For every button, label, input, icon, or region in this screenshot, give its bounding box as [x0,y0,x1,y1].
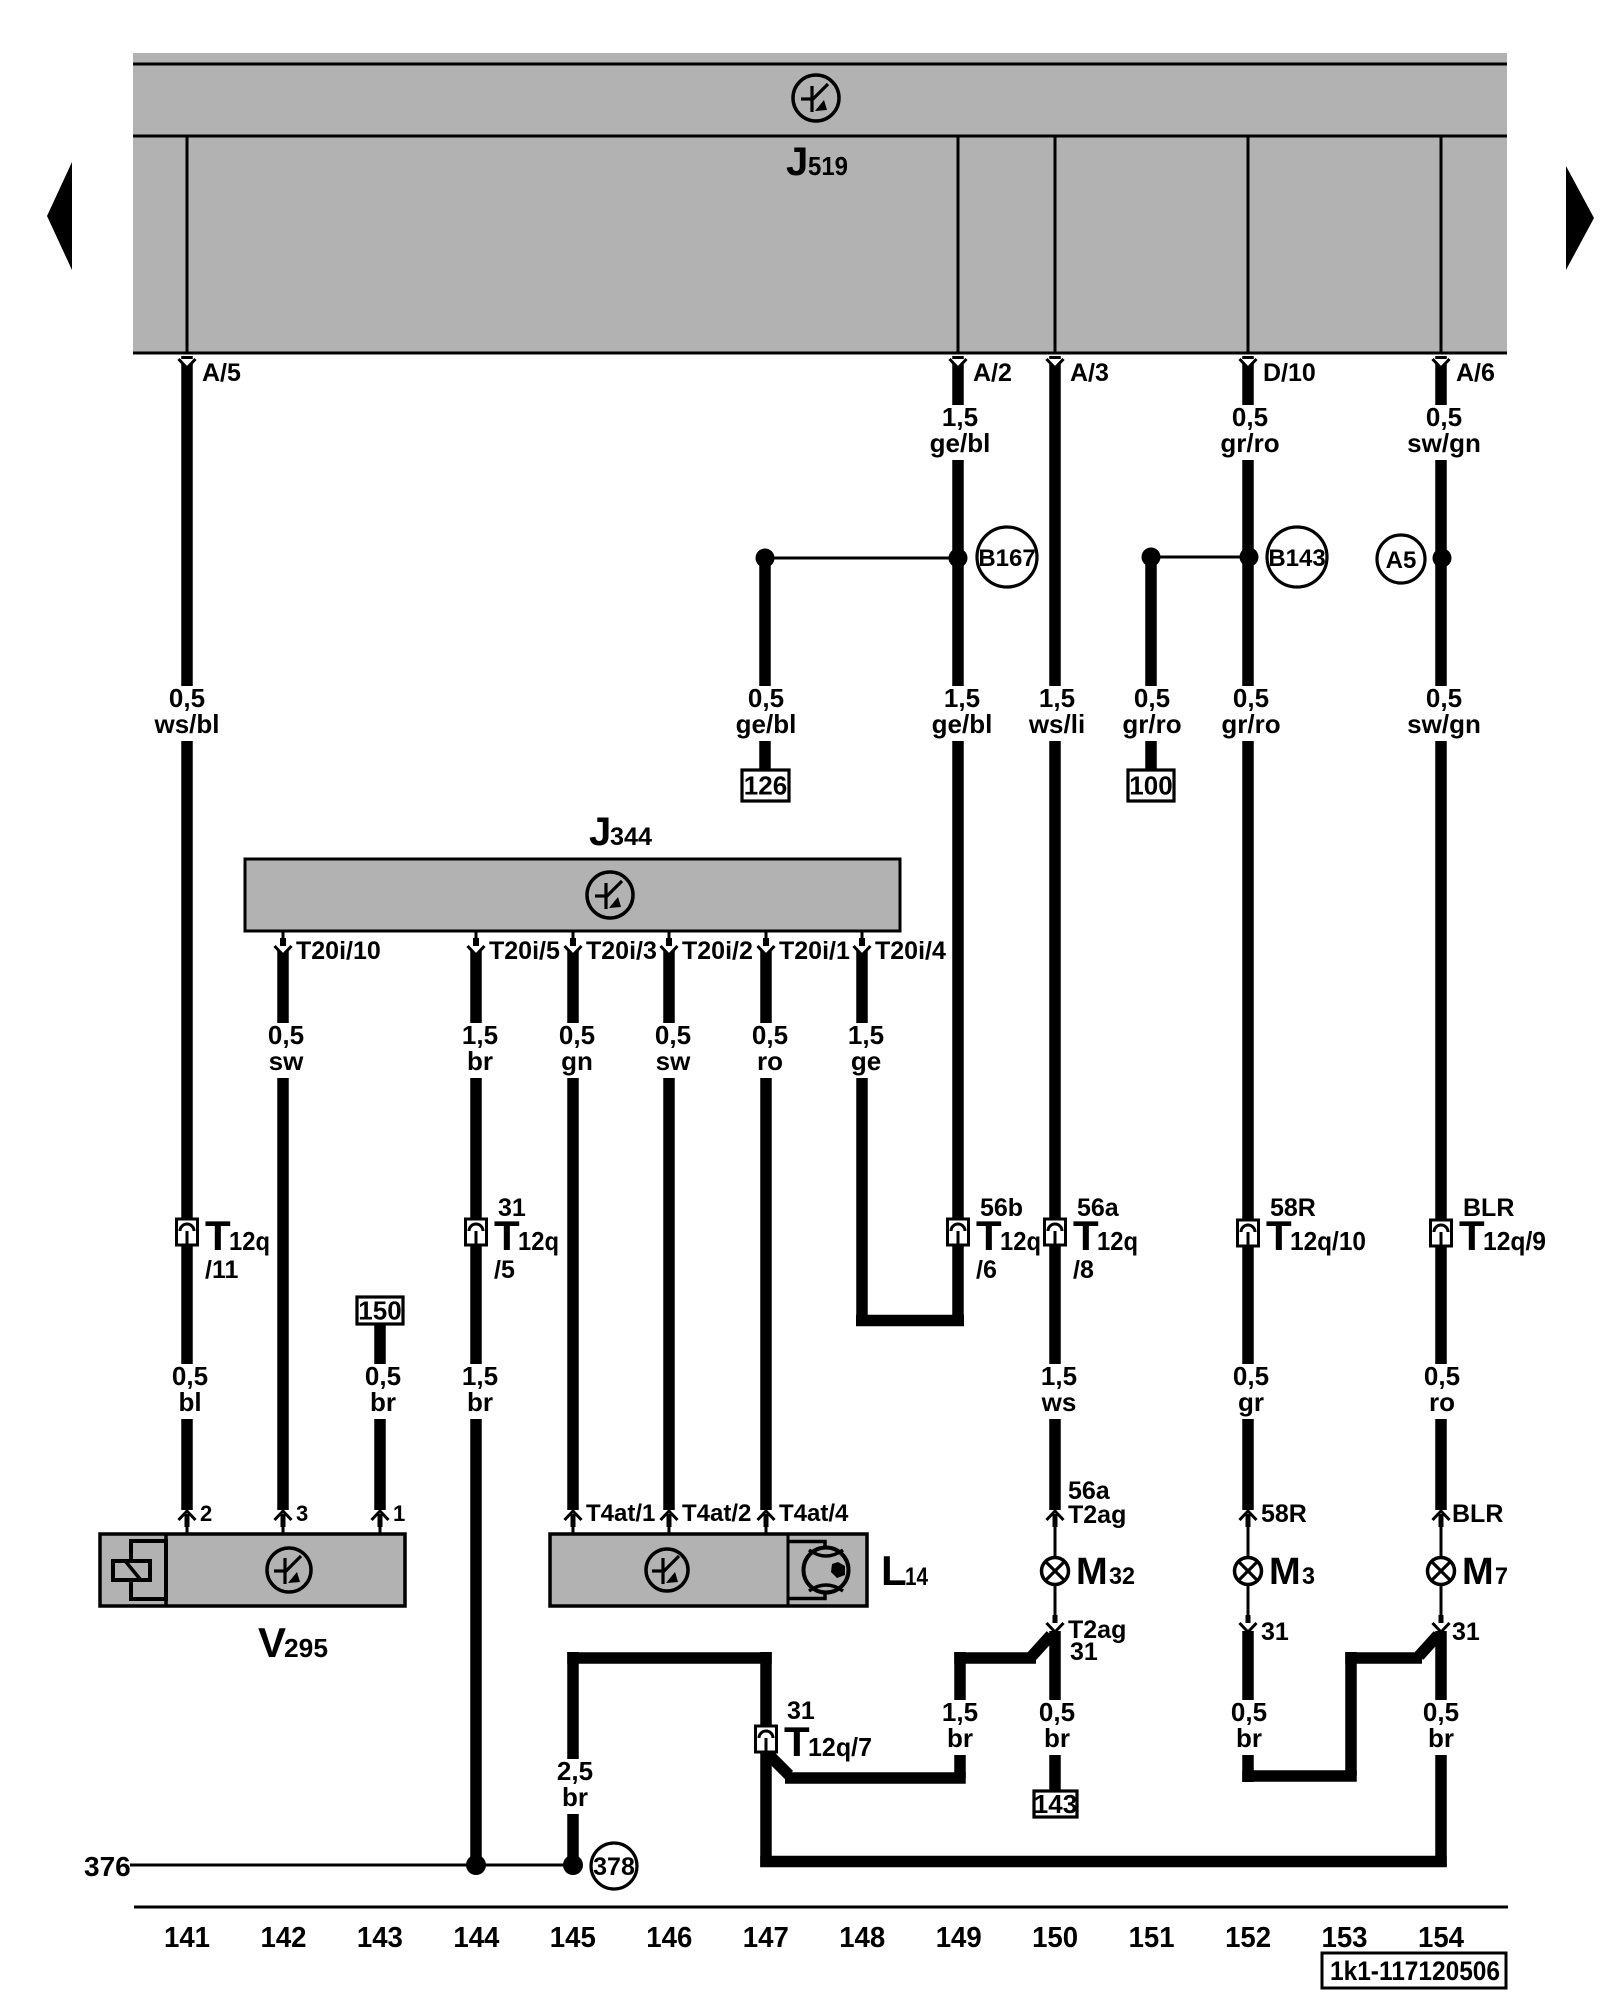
svg-text:J: J [589,810,611,854]
svg-text:sw: sw [269,1046,304,1076]
svg-text:142: 142 [261,1922,307,1954]
J344 pin T20i/2 [668,932,671,945]
wire below T12q/7 down to ground rail [760,1752,772,1867]
svg-text:M: M [1269,1551,1301,1593]
svg-text:12q: 12q [518,1226,559,1256]
svg-text:ro: ro [1429,1387,1455,1417]
J519 pin A/6 arrow [1433,359,1450,368]
wire 0,5 br M32 to terminal 143 [1049,1631,1061,1791]
J519 pin D/10 arrow [1240,359,1257,368]
svg-text:141: 141 [164,1922,210,1954]
svg-text:T: T [784,1718,810,1765]
right page arrow [1566,166,1594,270]
label 0,5 sw/gn [1402,405,1486,460]
wire 0,5 br M3 ground path [1242,1631,1254,1782]
svg-text:3: 3 [296,1501,308,1526]
connector T12q/8 [1045,1219,1066,1245]
svg-text:145: 145 [550,1922,596,1954]
J344 internal symbol [587,872,633,918]
J344 pin T20i/4 [861,932,864,945]
track rail line [134,1906,1508,1909]
junction dot stub 126 [756,549,775,568]
svg-text:J: J [786,140,808,184]
label 1,5 ge [840,1023,893,1078]
L14 internal symbol [646,1549,688,1591]
svg-text:154: 154 [1418,1922,1464,1954]
svg-text:sw/gn: sw/gn [1407,428,1481,458]
J519 internal symbol (K in circle) [793,75,839,121]
J519 pin A/2 arrow [950,359,967,368]
J519 bottom border line [133,352,1507,355]
connector T12q/7 [756,1726,777,1752]
svg-text:A/6: A/6 [1456,359,1495,387]
svg-text:378: 378 [593,1853,635,1881]
svg-text:12q/9: 12q/9 [1483,1226,1546,1256]
svg-text:gn: gn [561,1046,593,1076]
svg-text:T: T [205,1212,231,1259]
svg-text:ge/bl: ge/bl [930,428,991,458]
label 0,5 gr/ro [1110,686,1194,741]
label 0,5 br [357,1364,410,1419]
label 1,5 br [454,1364,507,1419]
svg-text:143: 143 [357,1922,403,1954]
svg-text:2: 2 [200,1501,212,1526]
junction dot on gr/ro wire [1240,548,1259,567]
svg-text:A/3: A/3 [1070,359,1109,387]
wire 1,5 br J344 T20i/5 down to ground junction [470,950,482,1862]
svg-text:32: 32 [1109,1563,1135,1590]
terminal box 143 [1034,1791,1077,1817]
wire 0,5 sw J344 T20i/2 to L14 T4at/2 [663,950,675,1510]
svg-text:T20i/3: T20i/3 [586,937,657,965]
svg-text:br: br [947,1723,973,1753]
label 0,5 gr/ro [1208,405,1292,460]
svg-text:ge/bl: ge/bl [736,709,797,739]
svg-text:/8: /8 [1073,1256,1094,1284]
svg-text:12q: 12q [1097,1226,1138,1256]
connector T12q/10 [1238,1220,1259,1246]
svg-text:14: 14 [905,1563,928,1591]
lamp M3 [1240,1511,1257,1520]
svg-text:12q: 12q [1000,1226,1041,1256]
svg-text:144: 144 [453,1922,499,1954]
svg-text:D/10: D/10 [1263,359,1316,387]
wire 0,5 ro J344 T20i/1 to L14 T4at/4 [760,950,772,1510]
svg-text:M: M [1076,1551,1108,1593]
V295 compartment divider [164,1534,168,1606]
svg-text:gr/ro: gr/ro [1122,709,1181,739]
junction dot on sw/gn wire [1433,549,1452,568]
label 1,5 ge/bl [918,405,1002,460]
J519 inner separator line [133,135,1507,138]
svg-text:T4at/1: T4at/1 [586,1500,655,1527]
svg-text:T4at/4: T4at/4 [779,1500,849,1527]
link wire to B167 [765,557,958,560]
svg-text:/6: /6 [976,1256,997,1284]
svg-text:B167: B167 [978,545,1035,572]
svg-text:BLR: BLR [1452,1500,1503,1528]
svg-text:12q: 12q [229,1226,270,1256]
L14 terminal T4at/2 [661,1511,678,1520]
svg-text:B143: B143 [1268,545,1325,572]
wire 0,5 gr/ro from J519 D/10 to M3 [1242,356,1254,1510]
V295 plug symbol small rect with slash [113,1561,150,1580]
svg-text:152: 152 [1225,1922,1271,1954]
J519 pin A/5 lead [186,137,189,352]
svg-text:L: L [881,1547,907,1594]
J519 pin A/3 arrow [1047,359,1064,368]
svg-text:ge: ge [851,1046,881,1076]
label 0,5 br [1223,1700,1276,1755]
terminal box 126 [742,770,789,801]
wire 0,5 br M7 down to ground rail [1435,1631,1447,1867]
label 1,5 br [454,1023,507,1078]
junction dot 2,5 br wire [563,1855,583,1875]
junction dot on ge/bl wire [949,549,968,568]
svg-text:149: 149 [936,1922,982,1954]
label 0,5 sw [647,1023,700,1078]
L14 lamp compartment divider [787,1534,790,1606]
diagram code box 1k1-117120506 [1322,1953,1506,1988]
wire 0,5 br from terminal 150 to V295/1 [374,1322,386,1510]
J519 pin A/2 lead [957,137,960,352]
diagonal to M32 ground terminal [1032,1635,1051,1656]
svg-text:148: 148 [839,1922,885,1954]
V295 internal symbol [267,1548,311,1592]
terminal box 100 [1128,770,1174,801]
svg-text:1k1-117120506: 1k1-117120506 [1330,1956,1500,1986]
svg-text:31: 31 [1261,1618,1289,1646]
wire 0,5 sw J344 T20i/10 to V295/3 [277,950,289,1510]
control unit J344 box [245,859,900,931]
svg-text:T2ag: T2ag [1068,1501,1126,1529]
wire 1,5 ws/li from J519 A/3 to M32 [1049,356,1061,1510]
svg-text:br: br [562,1782,588,1812]
svg-text:/5: /5 [494,1256,515,1284]
svg-text:sw: sw [656,1046,691,1076]
svg-text:br: br [1044,1723,1070,1753]
diagonal branch from T12q/7 [769,1755,789,1775]
svg-text:7: 7 [1495,1563,1508,1590]
L14 lamp socket bracket [788,1542,825,1551]
label 2,5 br [549,1759,602,1814]
connector T12q/9 [1431,1220,1452,1246]
svg-text:12q/10: 12q/10 [1290,1226,1366,1256]
J519 pin A/3 lead [1054,137,1057,352]
svg-text:ws/bl: ws/bl [153,709,219,739]
lamp M7 [1433,1511,1450,1520]
svg-text:br: br [370,1387,396,1417]
label 1,5 ws/li [1015,686,1099,741]
svg-text:12q/7: 12q/7 [808,1732,872,1762]
svg-text:58R: 58R [1261,1500,1307,1528]
label 0,5 gn [551,1023,604,1078]
component V295 box [100,1534,405,1606]
svg-text:V: V [258,1619,286,1666]
svg-text:T4at/2: T4at/2 [682,1500,751,1527]
label 0,5 gr [1225,1364,1278,1419]
V295 plug symbol rect [131,1541,166,1599]
wire 376 line [130,1864,573,1867]
svg-text:T: T [1266,1212,1292,1259]
svg-text:gr/ro: gr/ro [1221,709,1280,739]
svg-text:ro: ro [757,1046,783,1076]
connector T12q/11 [177,1219,198,1245]
label 0,5 ws/bl [145,686,229,741]
svg-text:bl: bl [178,1387,201,1417]
label 1,5 ws [1033,1364,1086,1419]
link wire to B143 [1151,556,1249,559]
label 0,5 sw [260,1023,313,1078]
svg-text:T20i/2: T20i/2 [682,937,753,965]
svg-text:3: 3 [1302,1563,1315,1590]
junction dot 144 wire [466,1855,486,1875]
wire 0,5 gn J344 T20i/3 to L14 T4at/1 [567,950,579,1510]
V295 terminal 1 [372,1511,389,1520]
junction dot stub 100 [1142,548,1161,567]
L14 terminal T4at/1 [565,1511,582,1520]
label 0,5 ro [1416,1364,1469,1419]
V295 terminal 3 [275,1511,292,1520]
wire 0,5 sw/gn from J519 A/6 to M7 [1435,356,1447,1510]
svg-text:sw/gn: sw/gn [1407,709,1481,739]
svg-text:151: 151 [1129,1922,1175,1954]
svg-text:150: 150 [358,1296,401,1326]
svg-text:A5: A5 [1386,547,1417,574]
left page arrow [47,162,72,270]
svg-text:147: 147 [743,1922,789,1954]
wire 1,5 br horizontal to vertical riser [785,1772,966,1784]
label 1,5 ge/bl [920,686,1004,741]
label 0,5 bl [164,1364,217,1419]
L14 lamp symbol [804,1548,849,1593]
label 0,5 br [1031,1700,1084,1755]
svg-text:519: 519 [808,151,848,181]
label 0,5 sw/gn [1402,686,1486,741]
svg-text:295: 295 [284,1633,328,1663]
svg-text:br: br [1428,1723,1454,1753]
label 1,5 br [934,1700,987,1755]
J344 pin T20i/5 [475,932,478,945]
svg-text:T20i/5: T20i/5 [489,937,560,965]
svg-text:T: T [1459,1212,1485,1259]
svg-text:T20i/10: T20i/10 [296,937,381,965]
svg-text:gr/ro: gr/ro [1220,428,1279,458]
svg-text:br: br [467,1046,493,1076]
label 0,5 br [1415,1700,1468,1755]
svg-text:31: 31 [1452,1618,1480,1646]
svg-text:146: 146 [646,1922,692,1954]
svg-text:T20i/1: T20i/1 [779,937,850,965]
J344 pin T20i/10 [282,932,285,945]
svg-text:31: 31 [1070,1638,1098,1666]
svg-text:A/2: A/2 [973,359,1012,387]
stub wire 0,5 gr/ro to terminal 100 [1145,551,1157,770]
control unit J519 box [133,53,1507,354]
svg-text:150: 150 [1032,1922,1078,1954]
svg-text:344: 344 [610,823,652,851]
J519 top border line [133,63,1507,66]
wire U-turn bottom (1,5 ge) [856,1315,964,1327]
J519 pin A/6 lead [1440,137,1443,352]
wire 1,5 ge up to J344 T20i/4 [856,950,868,1326]
connector T12q/6 [948,1219,969,1245]
svg-text:153: 153 [1322,1922,1368,1954]
svg-text:ws: ws [1041,1387,1077,1417]
svg-text:br: br [467,1387,493,1417]
connection circle A5 [1377,535,1425,583]
label 0,5 ro [744,1023,797,1078]
J344 pin T20i/3 [572,932,575,945]
svg-text:1: 1 [393,1501,405,1526]
label 0,5 gr/ro [1209,686,1293,741]
L14 terminal T4at/4 [758,1511,775,1520]
svg-text:M: M [1462,1551,1494,1593]
svg-text:/11: /11 [205,1256,238,1284]
svg-text:143: 143 [1034,1789,1077,1819]
terminal box 150 [357,1297,403,1324]
wire 1,5 ge/bl from J519 A/2 down [952,356,964,1326]
svg-text:ws/li: ws/li [1028,709,1085,739]
wire 0,5 ws/bl from J519 A/5 to V295/2 [181,356,193,1510]
V295 terminal 2 [179,1511,196,1520]
svg-text:T20i/4: T20i/4 [875,937,946,965]
svg-text:126: 126 [744,771,787,801]
svg-text:ge/bl: ge/bl [932,709,993,739]
J519 pin D/10 lead [1247,137,1250,352]
svg-text:100: 100 [1129,771,1172,801]
svg-text:A/5: A/5 [202,359,241,387]
ground point circle 378 [591,1843,637,1889]
J519 pin A/5 arrow [179,359,196,368]
lamp M32 [1047,1511,1064,1520]
connection circle B143 [1267,527,1327,587]
diagonal to M7 ground terminal [1419,1635,1438,1656]
svg-text:376: 376 [84,1851,131,1882]
wire 2,5 br: corner path from ground point up to T12q/7 [567,1652,579,1860]
component L14 box [550,1534,867,1606]
svg-text:gr: gr [1238,1387,1264,1417]
svg-text:br: br [1236,1723,1262,1753]
svg-text:T: T [494,1212,520,1259]
thick ground rail wire [760,1856,1447,1868]
label 0,5 ge/bl [724,686,808,741]
J344 pin T20i/1 [765,932,768,945]
connector T12q/5 [466,1219,487,1245]
svg-text:T: T [976,1212,1002,1259]
stub wire 0,5 ge/bl to terminal 126 [759,552,771,770]
connection circle B167 [977,527,1037,587]
svg-text:T: T [1073,1212,1099,1259]
